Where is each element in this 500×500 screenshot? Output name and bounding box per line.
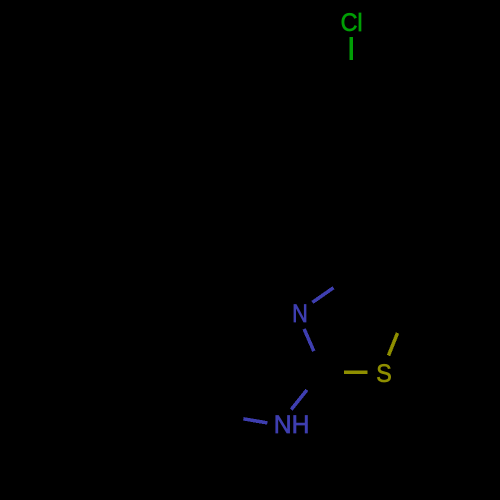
- bond C4-C5 (carbon, black, invisible): [354, 273, 406, 310]
- bond aryl C4'-C4 thiazole (black, invisible): [351, 211, 354, 273]
- bond Cl-C1' (chlorine half, green): [349, 37, 353, 60]
- bond Cl-C1' (carbon half, black, invisible): [349, 60, 353, 84]
- bond S1-C5 (carbon half, black, invisible): [398, 311, 407, 333]
- svg-text:Cl: Cl: [341, 9, 363, 37]
- bond N3-C4 (carbon half, black, invisible): [334, 273, 355, 287]
- bond NH-C2 (carbon half, black, invisible): [307, 372, 324, 390]
- bond N3-C2 (carbon half, black, invisible): [314, 351, 324, 373]
- bond S1-C5 (sulfur half, olive): [389, 333, 398, 356]
- bond NH-C2 (nitrogen half, blue): [291, 390, 307, 410]
- bond NH-Cipso of N-phenyl (nitrogen half, blue): [243, 419, 267, 423]
- benzene ring of 4-chlorophenyl (carbon bonds, black, invisible): [297, 85, 406, 212]
- bond N3-C2 (nitrogen half, blue): [304, 329, 314, 351]
- svg-text:NH: NH: [274, 411, 310, 439]
- svg-text:N: N: [292, 300, 308, 328]
- bond NH-Cipso (carbon half, black, invisible): [214, 414, 243, 418]
- bond C2-S1 (carbon half, black, invisible): [324, 371, 345, 375]
- bond N3-C4 (nitrogen half, blue): [312, 288, 333, 303]
- bond C2-S1 (sulfur half, olive): [344, 371, 368, 375]
- svg-text:S: S: [376, 360, 392, 388]
